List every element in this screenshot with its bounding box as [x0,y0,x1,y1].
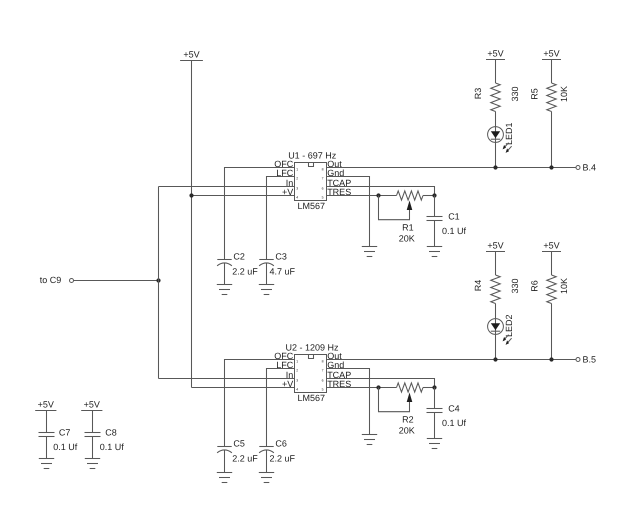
svg-text:20K: 20K [399,426,415,436]
wire to C9 to input line [74,280,159,282]
junction R5 on B.4 [549,165,553,169]
svg-text:2: 2 [296,177,298,181]
resistor R4 330 [491,275,500,304]
svg-text:C3: C3 [275,252,287,262]
wire Gnd U2 [327,369,370,435]
svg-text:0.1 Uf: 0.1 Uf [100,442,125,452]
svg-text:LED1: LED1 [504,122,514,145]
junction +V U1 on rail [189,193,193,197]
svg-text:C7: C7 [59,428,71,438]
ground under C7 [39,459,54,469]
svg-text:C2: C2 [233,252,245,262]
svg-text:4.7 uF: 4.7 uF [270,267,296,277]
wire R4 to LED2 to B.5 [495,304,497,360]
capacitor C7 [39,428,78,452]
svg-text:R2: R2 [402,415,414,425]
svg-text:R3: R3 [473,88,483,100]
svg-text:330: 330 [510,278,520,293]
svg-text:3: 3 [296,379,298,383]
svg-text:7: 7 [322,369,324,373]
svg-text:LED2: LED2 [504,314,514,337]
resistor R3 330 [491,83,500,112]
wire OFC U2 to C5 [225,360,295,447]
wire +5V to R3 [495,60,497,84]
svg-text:8: 8 [322,168,324,172]
svg-text:0.1 Uf: 0.1 Uf [442,226,467,236]
svg-text:330: 330 [510,86,520,101]
svg-text:5: 5 [322,196,324,200]
svg-text:0.1 Uf: 0.1 Uf [53,442,78,452]
label 330 of R4 [510,278,520,293]
capacitor C1 [434,196,436,217]
svg-text:10K: 10K [559,86,569,102]
label R6 [530,280,540,292]
svg-text:+5V: +5V [487,48,503,58]
wire +5V rail vertical [191,61,193,388]
LED LED1 [488,122,514,152]
svg-text:5: 5 [322,388,324,392]
ground at U2 Gnd pin [362,435,377,445]
svg-text:10K: 10K [559,278,569,294]
svg-text:C4: C4 [448,404,460,414]
svg-text:+5V: +5V [543,48,559,58]
junction TRES R1 right [432,193,436,197]
wire In U2 [159,378,295,380]
power +5V for R6 [542,240,561,251]
label R4 [473,280,483,292]
svg-text:+5V: +5V [183,49,199,59]
node to C9 [40,275,74,285]
svg-text:B.4: B.4 [583,163,597,173]
pin numbers U1 left 1-4 [296,168,298,200]
svg-text:3: 3 [296,187,298,191]
wire +5V to C8 [92,411,94,433]
power +5V for R3 [486,48,505,59]
junction LED1 branch on B.4 [493,165,497,169]
resistor R1 potentiometer 20K [379,191,435,244]
ground under C2 [217,285,232,295]
resistor R5 10K [547,83,556,112]
svg-text:4: 4 [296,388,298,392]
junction TRES R2 left [376,385,380,389]
svg-text:C5: C5 [233,439,245,449]
svg-text:8: 8 [322,360,324,364]
svg-text:2.2 uF: 2.2 uF [270,454,296,464]
LED LED2 [488,314,514,344]
svg-text:LM567: LM567 [298,393,326,403]
svg-text:1: 1 [296,168,298,172]
label R5 [530,88,540,100]
svg-text:+5V: +5V [84,399,100,409]
svg-text:+V: +V [282,187,293,197]
svg-text:1: 1 [296,360,298,364]
junction input line [156,278,160,282]
wire +V U2 from rail corner [192,387,295,389]
capacitor C6 [259,439,295,472]
capacitor C3 [259,252,295,285]
resistor R6 10K [547,275,556,304]
wire Gnd U1 [327,177,370,247]
wire Out U1 to node B.4 [327,167,576,169]
wire +5V to R6 [551,252,553,276]
svg-text:B.5: B.5 [583,355,597,365]
svg-text:2.2 uF: 2.2 uF [232,454,258,464]
svg-text:+V: +V [282,379,293,389]
svg-text:6: 6 [322,379,324,383]
ground under C1 [427,247,442,257]
op-amp U2 LM567 body [295,355,327,393]
op-amp U1 LM567 body [295,163,327,201]
ground under C4 [427,439,442,449]
svg-text:C6: C6 [275,439,287,449]
power +5V for C8 [81,399,102,410]
wire R3 to LED1 to B.4 [495,112,497,168]
wire TCAP U1 [327,187,435,196]
svg-text:6: 6 [322,187,324,191]
wire +V U1 from rail [192,195,295,197]
ground under C8 [85,459,100,469]
wire In U1 [159,186,295,188]
wire TCAP U2 [327,379,435,388]
power +5V for C7 [35,399,56,410]
ground under C6 [259,473,274,483]
junction LED2 branch on B.5 [493,357,497,361]
svg-text:+5V: +5V [487,240,503,250]
label 10K of R5 [559,86,569,102]
ground under C5 [217,473,232,483]
ground at U1 Gnd pin [362,247,377,257]
svg-text:LM567: LM567 [298,201,326,211]
capacitor C2 [217,252,258,285]
wire +5V to R4 [495,252,497,276]
wire +5V to C7 [46,411,48,433]
svg-text:to C9: to C9 [40,275,62,285]
svg-text:2: 2 [296,369,298,373]
node B.5 [576,355,596,365]
label R3 [473,88,483,100]
pin numbers U2 right 8-5 [322,360,324,392]
wire R6 to B.5 [551,304,553,360]
pin numbers U1 right 8-5 [322,168,324,200]
label 330 of R3 [510,86,520,101]
junction R6 on B.5 [549,357,553,361]
svg-text:R1: R1 [402,223,414,233]
junction TRES R2 right [432,385,436,389]
wire +5V to R5 [551,60,553,84]
svg-text:+5V: +5V [38,399,54,409]
svg-text:C8: C8 [105,428,117,438]
node B.4 [576,163,596,173]
wire TRES U2 [327,387,397,389]
power +5V for R5 [542,48,561,59]
capacitor C4 [434,388,436,409]
resistor R2 potentiometer 20K [379,383,435,436]
junction TRES R1 left [376,193,380,197]
svg-text:4: 4 [296,196,298,200]
svg-text:20K: 20K [399,234,415,244]
svg-text:C1: C1 [448,212,460,222]
wire input vertical line [158,187,160,379]
capacitor C8 [85,428,125,452]
wire LFC U1 to C3 [267,177,295,260]
wire Out U2 to node B.5 [327,359,576,361]
ground under C3 [259,285,274,295]
svg-text:R6: R6 [530,280,540,292]
svg-text:+5V: +5V [543,240,559,250]
svg-text:2.2 uF: 2.2 uF [232,267,258,277]
wire R5 to B.4 [551,112,553,168]
power +5V for R4 [486,240,505,251]
label 10K of R6 [559,278,569,294]
pin numbers U2 left 1-4 [296,360,298,392]
svg-text:R5: R5 [530,88,540,100]
svg-text:R4: R4 [473,280,483,292]
capacitor C5 [217,439,258,472]
svg-text:0.1 Uf: 0.1 Uf [442,418,467,428]
wire LFC U2 to C6 [267,369,295,447]
svg-text:7: 7 [322,177,324,181]
wire TRES U1 [327,195,397,197]
wire OFC U1 to C2 [225,168,295,260]
power +5V main rail symbol [180,49,203,60]
